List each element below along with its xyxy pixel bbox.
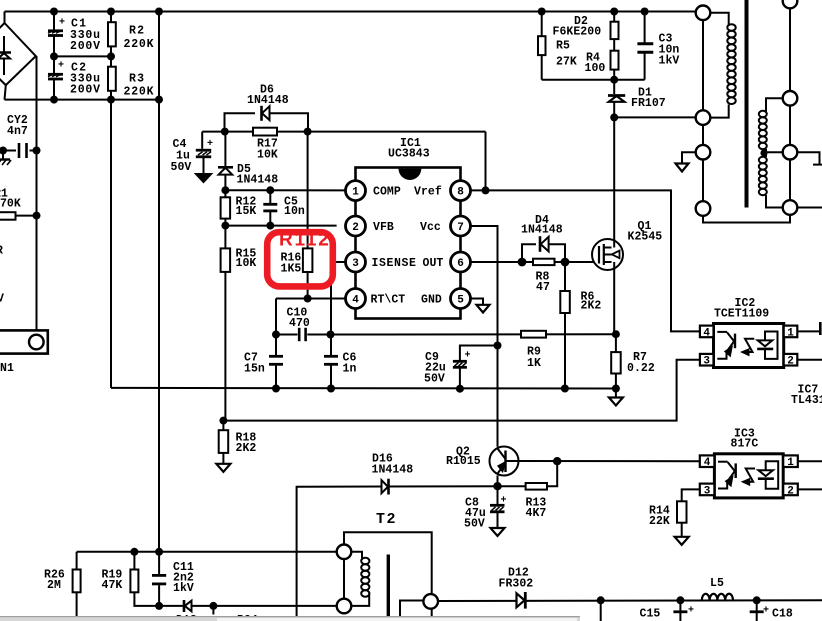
svg-text:T2: T2 xyxy=(376,511,397,528)
wire pin3 drop column xyxy=(331,262,346,335)
svg-text:220K: 220K xyxy=(124,86,155,99)
capacitor C15 xyxy=(679,600,681,610)
IC2 pin box 3 xyxy=(700,354,714,366)
svg-text:470: 470 xyxy=(289,317,310,330)
ground R14 xyxy=(675,537,689,545)
diode D16 xyxy=(382,480,389,493)
wire D5 to C5 xyxy=(225,189,345,191)
resistor R14 xyxy=(677,501,687,522)
svg-text:220K: 220K xyxy=(124,38,155,51)
svg-text:2: 2 xyxy=(352,222,359,234)
ground C8 xyxy=(491,528,505,536)
svg-text:Vcc: Vcc xyxy=(420,221,441,234)
svg-text:47K: 47K xyxy=(102,579,123,592)
svg-text:1n: 1n xyxy=(343,363,357,376)
wire y605.9 xyxy=(159,605,337,607)
svg-text:R1015: R1015 xyxy=(446,455,481,468)
svg-text:R3: R3 xyxy=(129,73,145,86)
diode D1 xyxy=(613,80,615,94)
transistor Q2 R1015 xyxy=(490,447,519,476)
ground for C4 (filled) xyxy=(196,174,211,182)
transistor Q1 K2545 xyxy=(592,239,623,270)
resistor R26 xyxy=(73,570,81,593)
wire VFB line xyxy=(225,225,336,227)
svg-text:1: 1 xyxy=(787,457,794,469)
resistor R7 xyxy=(615,334,617,352)
svg-text:R112: R112 xyxy=(279,230,331,251)
svg-text:C15: C15 xyxy=(640,608,661,621)
svg-text:1N4148: 1N4148 xyxy=(247,94,289,107)
svg-text:+: + xyxy=(465,351,471,362)
svg-text:R: R xyxy=(0,245,3,258)
wire T2 top loop xyxy=(344,532,432,594)
IC1 pin 6 xyxy=(451,252,471,272)
ground at T1 pin xyxy=(682,152,696,163)
svg-text:8: 8 xyxy=(457,187,464,199)
svg-text:FR107: FR107 xyxy=(631,97,666,110)
wire R9 line xyxy=(331,333,616,335)
svg-text:K2545: K2545 xyxy=(628,231,663,244)
svg-text:4: 4 xyxy=(352,295,359,307)
bottom grey strip xyxy=(0,616,580,621)
wire stub below dot xyxy=(212,606,214,615)
svg-text:0.22: 0.22 xyxy=(627,362,655,375)
svg-text:200V: 200V xyxy=(70,40,101,53)
wire Vcc drop xyxy=(471,226,498,447)
ground R18 xyxy=(216,464,230,472)
T1 primary winding xyxy=(710,13,728,25)
T2 right circle + bracket xyxy=(423,594,438,609)
svg-text:1kV: 1kV xyxy=(173,582,194,595)
wire y551.8 line xyxy=(77,551,337,553)
IC1 pin 8 xyxy=(451,181,471,201)
svg-text:VFB: VFB xyxy=(373,221,394,234)
wire R17 rail xyxy=(202,131,485,133)
svg-text:6: 6 xyxy=(457,258,464,270)
svg-text:4K7: 4K7 xyxy=(526,507,547,520)
svg-text:+: + xyxy=(501,496,507,507)
wire y79.7 xyxy=(542,79,645,81)
IC1 body UC3843 xyxy=(356,168,461,319)
svg-text:C18: C18 xyxy=(772,608,793,621)
wire Vref x485 drop xyxy=(485,132,487,191)
resistor R4 xyxy=(611,51,619,70)
wire D6 bypass loop xyxy=(225,113,256,131)
connector N1 xyxy=(0,330,48,353)
svg-text:4: 4 xyxy=(704,457,711,469)
capacitor C18 xyxy=(756,600,758,610)
IC1 pin 3 xyxy=(346,252,366,272)
svg-text:1kV: 1kV xyxy=(659,55,680,68)
wire Q2 base loop R13 xyxy=(547,461,557,486)
capacitor C8 xyxy=(497,486,499,504)
svg-text:1K5: 1K5 xyxy=(281,263,302,276)
svg-text:RT\CT: RT\CT xyxy=(371,294,406,307)
svg-text:2: 2 xyxy=(787,485,794,497)
wire Q1 drain column xyxy=(613,117,615,240)
capacitor CY2 xyxy=(0,150,16,152)
diode D4 xyxy=(539,236,542,252)
IC1 pin 5 xyxy=(451,289,471,309)
svg-text:+: + xyxy=(59,18,65,29)
svg-text:3: 3 xyxy=(704,485,711,497)
IC3 pin2 wire xyxy=(798,488,822,490)
IC3 pin1 wire xyxy=(798,460,822,462)
svg-text:1N4148: 1N4148 xyxy=(237,174,279,187)
svg-text:R5: R5 xyxy=(556,40,570,53)
T2 winding xyxy=(351,552,362,559)
svg-text:15n: 15n xyxy=(244,363,265,376)
svg-text:4n7: 4n7 xyxy=(7,125,28,138)
IC3 pin box 1 xyxy=(783,455,798,467)
resistor R1 (clipped) xyxy=(0,212,16,220)
resistor R2 xyxy=(110,12,112,23)
IC3 pin box 3 xyxy=(700,484,715,496)
IC1 pin 1 xyxy=(346,181,366,201)
svg-text:+: + xyxy=(58,61,64,72)
wire ground bus y388 xyxy=(111,387,616,390)
svg-text:Vref: Vref xyxy=(414,186,442,199)
resistor R9 xyxy=(521,331,546,338)
ground R7 xyxy=(615,389,617,398)
IC2 pin box 4 xyxy=(700,326,714,338)
svg-text:3: 3 xyxy=(703,356,710,368)
resistor R18 xyxy=(222,421,224,431)
svg-text:+: + xyxy=(207,139,213,150)
IC2 body TCET1109 xyxy=(714,324,784,368)
red annotation R112 xyxy=(267,232,333,286)
resistor R12 xyxy=(224,190,226,197)
diode D6 xyxy=(260,106,263,121)
svg-text:GND: GND xyxy=(421,294,442,307)
svg-text:L5: L5 xyxy=(710,577,724,590)
capacitor C1 xyxy=(53,12,55,30)
transformer T1 primary rail xyxy=(696,6,711,21)
svg-text:4: 4 xyxy=(703,327,710,339)
wire OUT line xyxy=(471,261,523,263)
IC2 pin1 wire xyxy=(797,330,819,332)
svg-text:10K: 10K xyxy=(257,149,278,162)
IC3 body 817C xyxy=(714,454,783,498)
svg-text:10n: 10n xyxy=(284,205,305,218)
svg-text:N1: N1 xyxy=(0,362,14,375)
svg-text:TCET1109: TCET1109 xyxy=(714,308,769,321)
wire long vertical x159 xyxy=(158,12,160,552)
diode D5 xyxy=(224,132,226,167)
capacitor C6 xyxy=(330,335,332,356)
wire Q2 emitter to IC3 xyxy=(518,460,700,462)
svg-text:V: V xyxy=(0,293,4,306)
inductor L5 xyxy=(702,594,733,601)
svg-text:OUT: OUT xyxy=(423,257,444,270)
capacitor C15 lead xyxy=(600,600,602,621)
wire bridge left drop xyxy=(4,12,6,25)
diode D13 (bottom small) xyxy=(183,600,186,612)
IC3 pin box 2 xyxy=(783,484,798,496)
svg-text:ISENSE: ISENSE xyxy=(372,257,417,270)
transformer T1 secondary rail xyxy=(783,0,798,8)
wire top rail xyxy=(5,11,696,13)
svg-text:1: 1 xyxy=(352,187,359,199)
IC2 pin box 2 xyxy=(784,354,798,366)
resistor R17 xyxy=(253,128,277,136)
wire bottom out rail xyxy=(438,599,822,602)
wire bottom bridge rail xyxy=(5,99,160,101)
wire sec out top xyxy=(797,152,819,164)
IC2 pin2 wire xyxy=(797,359,822,361)
wire C4 drop xyxy=(201,132,203,149)
wire D1 to T1 xyxy=(614,116,695,118)
IC1 pin 4 xyxy=(346,289,366,309)
svg-text:50V: 50V xyxy=(464,518,485,531)
wire D4 loop xyxy=(522,244,536,262)
wire Vref return y420 xyxy=(223,360,699,421)
wire R3 column down xyxy=(110,100,112,388)
resistor R15 xyxy=(224,226,226,249)
wire Vref rail y190 xyxy=(471,190,700,331)
IC2 internals xyxy=(717,332,777,359)
svg-text:+: + xyxy=(688,606,694,617)
diode D12 xyxy=(517,593,525,607)
wire bridge right corner down to N1 xyxy=(36,56,38,330)
svg-text:UC3843: UC3843 xyxy=(388,148,430,161)
svg-text:COMP: COMP xyxy=(373,186,401,199)
T2 core xyxy=(387,555,390,618)
wire C1/C2 mid xyxy=(54,55,111,57)
svg-text:TL431: TL431 xyxy=(791,394,822,407)
svg-text:1K: 1K xyxy=(527,357,541,370)
svg-text:47: 47 xyxy=(536,281,550,294)
T1 core xyxy=(745,0,749,208)
svg-text:F6KE200: F6KE200 xyxy=(553,26,602,39)
bridge rectifier B1 diamond xyxy=(5,23,36,85)
wire gate xyxy=(565,261,594,263)
wire sec out bottom xyxy=(797,207,822,209)
svg-text:FR302: FR302 xyxy=(499,578,534,591)
capacitor C11 xyxy=(158,552,160,574)
capacitor C2 xyxy=(53,56,55,73)
svg-text:7: 7 xyxy=(457,222,464,234)
capacitor C4 xyxy=(196,149,211,152)
svg-text:1N4148: 1N4148 xyxy=(372,464,414,477)
svg-text:3: 3 xyxy=(352,258,359,270)
svg-text:R2: R2 xyxy=(129,25,145,38)
wire T1 bottom U xyxy=(703,215,790,223)
IC1 pin 7 xyxy=(451,216,471,236)
resistor R13 xyxy=(526,483,547,490)
svg-text:200V: 200V xyxy=(70,84,101,97)
resistor R8 xyxy=(533,259,555,265)
resistor R19 xyxy=(133,552,135,570)
capacitor C10 xyxy=(276,334,298,336)
svg-text:50V: 50V xyxy=(171,161,192,174)
IC1 pin 2 xyxy=(346,216,366,236)
IC1 notch xyxy=(399,169,422,180)
resistor R3 xyxy=(110,56,112,66)
resistor R6 xyxy=(564,262,566,291)
earth ground below CY2 xyxy=(2,151,4,160)
svg-text:1: 1 xyxy=(787,327,794,339)
svg-text:27K: 27K xyxy=(556,56,577,69)
T1 secondary winding upper xyxy=(766,98,783,112)
pin5 ground xyxy=(471,299,484,305)
wire bridge bottom drop xyxy=(5,85,6,100)
svg-text:22K: 22K xyxy=(649,515,670,528)
T1 secondary winding lower xyxy=(765,152,767,157)
svg-text:15K: 15K xyxy=(236,205,257,218)
transformer T2 xyxy=(337,545,352,560)
capacitor C7 xyxy=(275,335,277,356)
svg-text:100: 100 xyxy=(585,62,606,75)
svg-text:470K: 470K xyxy=(0,198,21,211)
IC3 pin3 wire + R14 xyxy=(682,489,700,501)
wire RT/CT line xyxy=(276,298,346,300)
svg-text:2M: 2M xyxy=(47,579,61,592)
capacitor C9 xyxy=(460,346,498,361)
diode D2 (box) xyxy=(613,12,615,22)
svg-text:50V: 50V xyxy=(424,373,445,386)
svg-text:2K2: 2K2 xyxy=(236,442,257,455)
svg-text:1N4148: 1N4148 xyxy=(521,224,563,237)
svg-text:2: 2 xyxy=(787,356,794,368)
diode inside bridge xyxy=(3,36,5,53)
svg-text:+: + xyxy=(763,606,769,617)
capacitor C3 xyxy=(644,12,646,43)
resistor R16 xyxy=(307,132,309,249)
svg-text:2K2: 2K2 xyxy=(581,300,602,313)
wire base line D16 xyxy=(297,486,526,617)
IC2 pin box 1 xyxy=(784,326,798,338)
IC3 pin box 4 xyxy=(700,455,715,467)
svg-text:10K: 10K xyxy=(236,257,257,270)
svg-text:817C: 817C xyxy=(731,438,759,451)
svg-text:5: 5 xyxy=(457,295,464,307)
resistor R5 xyxy=(541,12,543,37)
IC3 internals xyxy=(718,461,778,488)
capacitor C5 xyxy=(269,190,271,203)
